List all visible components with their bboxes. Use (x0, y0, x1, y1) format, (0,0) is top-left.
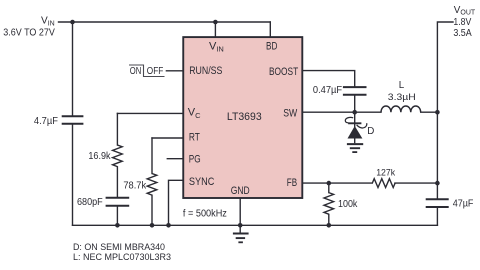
svg-text:680pF: 680pF (77, 197, 103, 208)
svg-text:GND: GND (231, 185, 250, 197)
svg-text:100k: 100k (338, 199, 357, 210)
capacitor 47uF plates (426, 199, 449, 207)
svg-text:1.8V: 1.8V (453, 17, 471, 28)
wire: SW node down to diode (354, 112, 356, 126)
svg-text:L: NEC MPLC0730L3R3: L: NEC MPLC0730L3R3 (73, 252, 171, 263)
wire: BOOST to 0.47uF (302, 71, 355, 87)
wire: VOUT vertical with top tick (437, 22, 453, 199)
wire: bottom ground rail (73, 224, 438, 226)
svg-text:ON: ON (130, 66, 142, 77)
ON/OFF toggle symbol (129, 65, 165, 77)
node: FB / 100k junction (327, 181, 332, 186)
wire: left branch down to 4.7uF (72, 22, 74, 116)
inductor L 3.3uH humps (381, 106, 421, 112)
wire: 78.7k to rail (151, 195, 153, 225)
svg-text:RUN/SS: RUN/SS (189, 65, 222, 77)
resistor 127k zigzag (372, 179, 395, 188)
wire: GND pin stub (239, 198, 241, 225)
wire: inductor to VOUT node (421, 111, 438, 113)
resistor 100k zigzag (324, 193, 334, 215)
svg-text:BOOST: BOOST (269, 66, 298, 78)
wire: SYNC to ground (169, 180, 184, 225)
capacitor 680pF plates (106, 198, 130, 206)
capacitor C1 4.7uF plates (62, 116, 84, 124)
svg-text:4.7µF: 4.7µF (34, 116, 58, 127)
svg-text:0.47µF: 0.47µF (313, 85, 342, 96)
svg-text:BD: BD (266, 41, 277, 53)
node: 100k rail junction (327, 223, 332, 228)
wire: 0.47uF bottom to SW node (354, 96, 356, 113)
svg-text:16.9k: 16.9k (88, 151, 110, 162)
svg-text:47µF: 47µF (453, 198, 474, 209)
diode S-curve hook (345, 117, 366, 128)
wire: RT branch vertical (151, 138, 153, 174)
wire: BD pin drop to IC (269, 22, 271, 37)
wire: 100k top connection (328, 183, 330, 193)
svg-text:f = 500kHz: f = 500kHz (183, 208, 227, 219)
wire: VIN top rail (59, 21, 271, 23)
svg-text:PG: PG (189, 154, 201, 166)
svg-text:FB: FB (287, 177, 297, 189)
svg-text:SYNC: SYNC (189, 176, 215, 188)
wire: PG stub (167, 158, 183, 160)
svg-text:LT3693: LT3693 (227, 111, 262, 123)
wire: SW to inductor (302, 111, 381, 113)
resistor 16.9k zigzag (113, 145, 123, 167)
node: SYNC rail junction (166, 223, 171, 228)
op-amp: none. IC U1 LT3693 body (183, 37, 302, 198)
wire: comp branch vertical to 16.9k (116, 113, 118, 145)
svg-text:RT: RT (189, 132, 200, 144)
node: GND rail junction (238, 223, 243, 228)
node: VIN pin junction (213, 20, 218, 25)
wire: 680pF to rail (116, 207, 118, 226)
wire: 16.9k to 680pF (116, 167, 118, 197)
wire: VC to compensation branch (117, 112, 183, 114)
svg-text:L: L (399, 80, 405, 91)
resistor 78.7k zigzag (147, 174, 157, 196)
wire: FB to output divider (302, 182, 437, 184)
wire: RT to 78.7k (152, 137, 183, 139)
wire: 47uF bottom to rail (436, 208, 438, 225)
capacitor 0.47uF plates (343, 87, 367, 95)
ground symbol at GND pin (233, 225, 249, 242)
node: VIN rail / 4.7uF junction (70, 20, 75, 25)
svg-text:SW: SW (283, 108, 297, 120)
svg-text:127k: 127k (376, 168, 395, 179)
wire: 4.7uF bottom to ground rail (72, 125, 74, 226)
svg-text:3.6V TO 27V: 3.6V TO 27V (3, 28, 55, 39)
wire: VIN pin drop to IC (214, 22, 216, 37)
wire: 100k bottom to rail (328, 214, 330, 225)
svg-text:3.5A: 3.5A (453, 28, 472, 39)
svg-text:D: D (367, 126, 374, 137)
node: 680pF rail junction (115, 223, 120, 228)
svg-text:78.7k: 78.7k (123, 181, 146, 192)
ground symbol under diode (347, 144, 363, 152)
svg-text:3.3µH: 3.3µH (388, 92, 416, 103)
node: 78.7k rail junction (150, 223, 155, 228)
svg-text:OFF: OFF (147, 66, 164, 77)
node: inductor / VOUT junction (435, 110, 440, 115)
wire: RUN/SS from ON-OFF (166, 70, 183, 72)
node: SW / diode / 0.47uF junction (352, 110, 357, 115)
diode D MBRA340 (348, 123, 363, 143)
node: FB / 127k / VOUT junction (435, 181, 440, 186)
